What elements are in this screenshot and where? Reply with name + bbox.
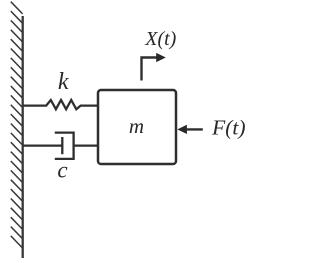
wire cylinder to mass xyxy=(74,144,98,146)
wall xyxy=(11,2,23,258)
damper c xyxy=(24,133,99,159)
svg-text:c: c xyxy=(57,158,67,183)
svg-text:F(t): F(t) xyxy=(211,116,245,140)
svg-text:m: m xyxy=(129,114,144,138)
svg-text:X(t): X(t) xyxy=(144,28,176,50)
piston plate xyxy=(61,137,63,154)
displacement arrow X(t) xyxy=(142,58,158,81)
svg-text:k: k xyxy=(58,69,69,95)
force arrow F(t) xyxy=(186,128,203,130)
mass m xyxy=(98,90,176,164)
cylinder xyxy=(55,133,74,159)
wire wall to piston xyxy=(24,144,63,146)
spring k xyxy=(24,100,98,109)
